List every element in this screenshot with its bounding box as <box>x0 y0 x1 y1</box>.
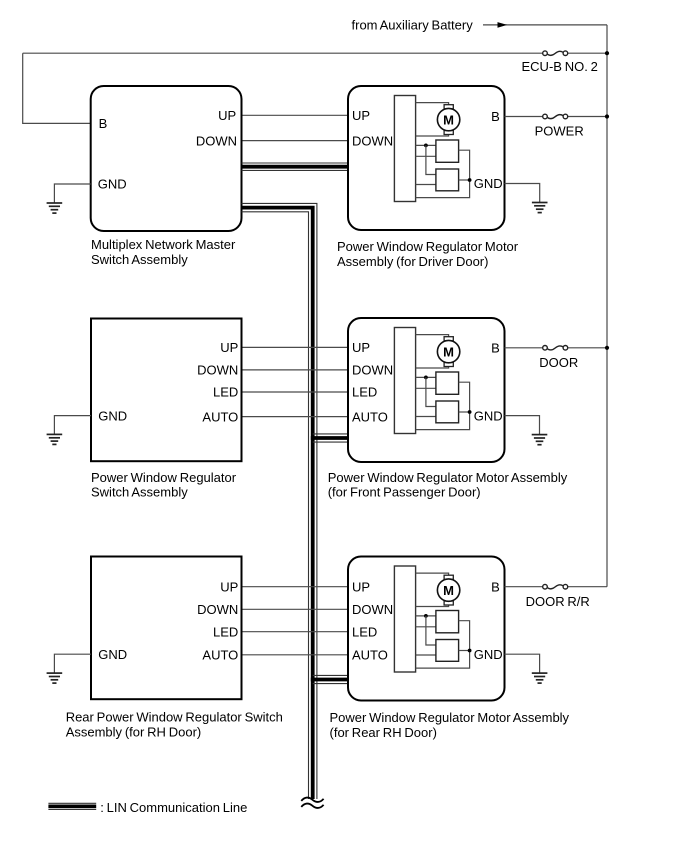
wire POWER fuse row <box>505 116 608 118</box>
wire relay 1 out, right vertical, return to connector <box>416 150 470 197</box>
wire AUTO (front switch to front motor) <box>242 416 349 418</box>
svg-text:DOWN: DOWN <box>352 363 393 378</box>
svg-text:GND: GND <box>474 647 503 662</box>
multiplex network master switch assembly box <box>91 86 242 231</box>
wire LED (rear switch to rear motor) <box>242 631 349 633</box>
wire UP (rear switch to rear motor) <box>242 586 349 588</box>
svg-text:M: M <box>443 112 454 127</box>
svg-text:DOOR R/R: DOOR R/R <box>526 594 590 609</box>
ground (front motor) <box>532 435 548 445</box>
svg-text:M: M <box>443 583 454 598</box>
wire GND rear switch to ground <box>54 654 91 673</box>
relay 1 (upper square) <box>436 140 459 162</box>
node bus / POWER <box>605 114 609 118</box>
junction (relay feed) <box>424 614 428 618</box>
wire connector to motor top <box>416 335 449 338</box>
wire B feed to multiplex switch <box>23 53 91 123</box>
ground (front switch) <box>47 434 63 444</box>
wire connector to relay 1 <box>416 615 436 617</box>
wire connector to motor top <box>416 573 449 576</box>
wire UP (multiplex to driver motor) <box>242 114 349 116</box>
wire junction down to relay 2 <box>426 377 436 406</box>
svg-text:GND: GND <box>98 647 127 662</box>
svg-text:Switch Assembly: Switch Assembly <box>91 485 188 500</box>
relay 2 (lower square) <box>436 640 459 662</box>
svg-text:GND: GND <box>98 177 127 192</box>
svg-text:UP: UP <box>220 340 238 355</box>
LIN bus break squiggle <box>301 798 323 808</box>
svg-text:B: B <box>491 109 500 124</box>
connector (inside driver door) <box>394 96 415 202</box>
node bus / DOOR <box>605 346 609 350</box>
fuse DOOR <box>543 346 568 351</box>
svg-text:DOWN: DOWN <box>197 602 238 617</box>
wire DOWN (rear switch to rear motor) <box>242 608 349 610</box>
LIN branch to rear RH motor <box>311 675 348 683</box>
wire connector to relay 1 <box>416 144 436 146</box>
svg-text:B: B <box>491 341 500 356</box>
wire connector to relay 1 lower pin <box>416 626 436 628</box>
svg-text:LED: LED <box>213 624 238 639</box>
junction GND node <box>468 178 472 182</box>
junction GND node <box>468 410 472 414</box>
relay 1 (upper square) <box>436 611 459 633</box>
svg-text:Power Window Regulator: Power Window Regulator <box>91 470 237 485</box>
motor M (in driver door) <box>437 105 459 135</box>
connector (inside rear RH door) <box>394 566 415 672</box>
svg-text:(for Front Passenger Door): (for Front Passenger Door) <box>328 485 481 500</box>
svg-text:DOWN: DOWN <box>196 133 237 148</box>
svg-text:UP: UP <box>352 579 370 594</box>
wire relay 1 out, right vertical, return to connector <box>416 382 470 429</box>
junction GND node <box>468 649 472 653</box>
motor M (in rear RH door) <box>437 575 459 605</box>
LIN branch to front passenger motor <box>311 434 348 442</box>
node bus / ECU-B <box>605 51 609 55</box>
wire DOOR fuse row <box>505 347 608 349</box>
svg-text:LED: LED <box>213 385 238 400</box>
svg-text:LED: LED <box>352 624 377 639</box>
fuse ECU-B NO. 2 <box>543 51 568 56</box>
wire relay 2 out to GND node <box>459 411 470 413</box>
wire UP (front switch to front motor) <box>242 346 349 348</box>
svg-text:Assembly (for RH Door): Assembly (for RH Door) <box>66 725 202 740</box>
wire connector to motor top <box>416 103 449 106</box>
wire motor bottom to connector <box>416 366 449 368</box>
motor assembly box rear RH door <box>348 557 505 701</box>
svg-text:UP: UP <box>352 108 370 123</box>
svg-text:Assembly (for Driver Door): Assembly (for Driver Door) <box>337 254 488 269</box>
svg-text:AUTO: AUTO <box>202 409 238 424</box>
wire connector to relay 2 lower pin <box>416 184 436 186</box>
wire connector to relay 2 lower pin <box>416 654 436 656</box>
svg-text:Power Window Regulator Motor A: Power Window Regulator Motor Assembly <box>328 470 568 485</box>
svg-text:DOWN: DOWN <box>197 363 238 378</box>
relay 2 (lower square) <box>436 401 459 423</box>
svg-text:GND: GND <box>474 408 503 423</box>
svg-text:AUTO: AUTO <box>352 648 388 663</box>
motor M (in front passenger door) <box>437 337 459 367</box>
wire connector to relay 1 <box>416 376 436 378</box>
power bus (right vertical) <box>606 25 608 587</box>
wire junction down to relay 2 <box>426 145 436 174</box>
svg-text:DOWN: DOWN <box>352 602 393 617</box>
svg-text:UP: UP <box>352 340 370 355</box>
svg-text:DOOR: DOOR <box>539 355 578 370</box>
svg-text:B: B <box>99 116 108 131</box>
fuse DOOR R/R <box>543 584 568 589</box>
wire DOWN (front switch to front motor) <box>242 369 349 371</box>
wire GND driver motor to ground <box>505 184 540 203</box>
ground (rear switch) <box>47 673 63 683</box>
wire GND multiplex to ground <box>54 184 90 203</box>
junction (relay feed) <box>424 376 428 380</box>
svg-text:: LIN Communication Line: : LIN Communication Line <box>100 800 247 815</box>
legend LIN line sample <box>48 803 96 809</box>
wire GND front motor to ground <box>505 416 540 435</box>
motor assembly box driver door <box>348 86 505 230</box>
wire GND rear motor to ground <box>505 654 540 673</box>
wire ECU-B NO. 2 fuse row <box>23 52 607 54</box>
svg-text:AUTO: AUTO <box>202 648 238 663</box>
svg-text:AUTO: AUTO <box>352 409 388 424</box>
arrowhead <box>498 22 508 28</box>
svg-text:Switch Assembly: Switch Assembly <box>91 252 188 267</box>
svg-text:DOWN: DOWN <box>352 133 393 148</box>
motor assembly box front passenger door <box>348 318 505 462</box>
ground (rear motor) <box>532 673 548 683</box>
LIN line multiplex to driver motor <box>242 163 349 170</box>
wire from auxiliary battery to bus <box>483 24 607 26</box>
svg-text:ECU-B NO. 2: ECU-B NO. 2 <box>522 59 598 74</box>
svg-text:UP: UP <box>218 108 236 123</box>
ground (multiplex) <box>47 203 63 213</box>
svg-text:B: B <box>491 579 500 594</box>
svg-text:GND: GND <box>474 176 503 191</box>
relay 2 (lower square) <box>436 169 459 191</box>
svg-text:Power Window Regulator Motor: Power Window Regulator Motor <box>337 239 519 254</box>
wire connector to relay 2 lower pin <box>416 416 436 418</box>
wire DOOR R/R fuse row <box>505 586 608 588</box>
LIN bus (multiplex down the page) <box>242 203 317 799</box>
ground (driver motor) <box>532 203 548 213</box>
wire connector to relay 1 lower pin <box>416 155 436 157</box>
svg-text:UP: UP <box>220 579 238 594</box>
wire GND front switch to ground <box>54 416 91 435</box>
svg-text:Rear Power Window Regulator Sw: Rear Power Window Regulator Switch <box>66 710 283 725</box>
connector (inside front passenger door) <box>394 328 415 434</box>
wire motor bottom to connector <box>416 604 449 606</box>
wire DOWN (multiplex to driver motor) <box>242 140 349 142</box>
svg-text:(for Rear RH Door): (for Rear RH Door) <box>330 725 437 740</box>
wire AUTO (rear switch to rear motor) <box>242 654 349 656</box>
wire relay 1 out, right vertical, return to connector <box>416 621 470 668</box>
wire junction down to relay 2 <box>426 616 436 645</box>
svg-text:M: M <box>443 344 454 359</box>
relay 1 (upper square) <box>436 372 459 394</box>
wire relay 2 out to GND node <box>459 179 470 181</box>
svg-text:Power Window Regulator Motor A: Power Window Regulator Motor Assembly <box>330 710 570 725</box>
fuse POWER <box>543 114 568 119</box>
power window regulator switch assembly box <box>91 319 242 462</box>
svg-text:from Auxiliary Battery: from Auxiliary Battery <box>352 17 474 32</box>
wire motor bottom to connector <box>416 134 449 136</box>
svg-text:POWER: POWER <box>535 123 584 138</box>
rear power window regulator switch assembly box <box>91 557 242 700</box>
svg-text:Multiplex Network Master: Multiplex Network Master <box>91 237 236 252</box>
wire connector to relay 1 lower pin <box>416 387 436 389</box>
svg-text:LED: LED <box>352 385 377 400</box>
svg-text:GND: GND <box>98 408 127 423</box>
junction (relay feed) <box>424 144 428 148</box>
wire LED (front switch to front motor) <box>242 391 349 393</box>
wire relay 2 out to GND node <box>459 650 470 652</box>
